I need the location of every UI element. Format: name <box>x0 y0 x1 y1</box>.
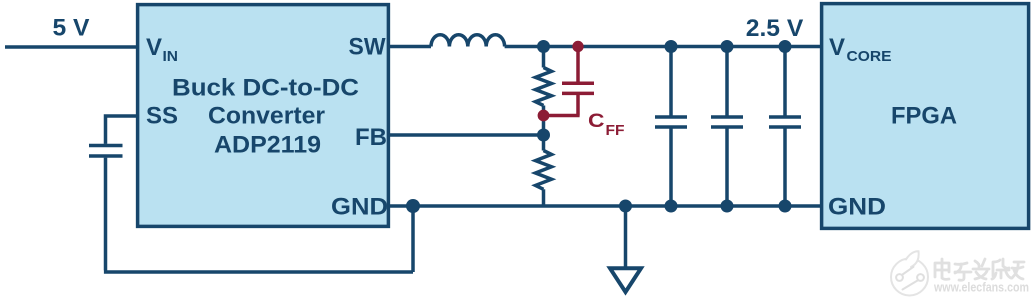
wire: CFF top lead <box>576 47 580 82</box>
wire: ground rail <box>389 204 821 208</box>
svg-text:GND: GND <box>828 194 886 221</box>
svg-text:Converter: Converter <box>208 102 325 129</box>
wire: SW pin to inductor <box>389 45 431 49</box>
node: ground symbol junction <box>619 200 632 213</box>
svg-text:SS: SS <box>146 103 178 130</box>
node: C2 top <box>721 40 734 53</box>
node: C2 bottom <box>721 200 734 213</box>
wire: R1 to FB node <box>542 106 546 151</box>
node: C1 bottom <box>665 200 678 213</box>
watermark text: 电子发烧友 (approximated glyph strokes) <box>935 259 1024 280</box>
svg-text:V: V <box>146 34 162 61</box>
resistor R1 (upper divider) <box>536 68 552 106</box>
node: C1 top <box>665 40 678 53</box>
FPGA block <box>822 4 1029 229</box>
svg-text:ADP2119: ADP2119 <box>214 132 321 159</box>
svg-text:CORE: CORE <box>847 48 892 65</box>
svg-text:SW: SW <box>349 34 386 61</box>
capacitor C3 output <box>769 47 801 207</box>
wire: FB pin to divider <box>389 133 544 137</box>
capacitor CFF feed-forward <box>562 83 594 93</box>
node: C3 bottom <box>779 200 792 213</box>
ground <box>610 268 641 292</box>
node: CFF top junction (maroon) <box>572 41 583 52</box>
wire: 5V input to VIN <box>5 45 137 49</box>
svg-text:FB: FB <box>355 124 387 151</box>
svg-text:Buck DC-to-DC: Buck DC-to-DC <box>172 74 359 101</box>
svg-text:5 V: 5 V <box>53 15 90 42</box>
svg-text:2.5 V: 2.5 V <box>746 15 804 42</box>
svg-text:www.elecfans.com: www.elecfans.com <box>933 280 1029 295</box>
svg-text:C: C <box>588 111 605 132</box>
capacitor C1 output <box>655 47 687 207</box>
capacitor C2 output <box>711 47 743 207</box>
capacitor C_SS soft start <box>89 146 123 157</box>
wire: SS pin to soft-start capacitor <box>106 116 138 144</box>
wire: CFF bottom lead to FB node <box>544 95 580 116</box>
resistor R2 (lower divider) <box>536 151 552 190</box>
svg-text:V: V <box>829 34 845 61</box>
node: divider top junction <box>537 40 550 53</box>
wire: R2 to ground rail <box>542 189 546 206</box>
svg-text:IN: IN <box>163 48 179 65</box>
inductor L1 <box>431 35 505 47</box>
node: FB junction <box>537 129 550 142</box>
wire: soft-start cap to ground node loop <box>104 158 413 272</box>
node: CFF bottom junction (maroon) <box>538 110 550 122</box>
wire: divider top lead <box>542 47 546 68</box>
watermark logo circle <box>891 251 928 295</box>
node: C3 top <box>779 40 792 53</box>
converter U1 ADP2119 block <box>138 5 389 227</box>
node: GND pin junction <box>406 199 420 213</box>
wire: ground symbol stem <box>624 206 628 267</box>
svg-text:FPGA: FPGA <box>891 103 957 130</box>
svg-text:FF: FF <box>606 123 625 139</box>
wire: 2.5V output rail <box>505 45 821 49</box>
svg-text:GND: GND <box>331 194 388 221</box>
